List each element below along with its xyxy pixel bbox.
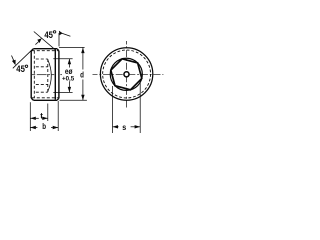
wire: horizontal centerline of front view <box>93 73 164 75</box>
arrowhead b right <box>53 126 59 129</box>
top-right chamfer <box>57 49 59 51</box>
wire: b dimension line right segment <box>51 127 58 129</box>
svg-text:d: d <box>80 71 84 80</box>
svg-text:45: 45 <box>16 64 25 74</box>
wire: s dimension extension line right <box>139 80 141 133</box>
wire: t dimension line right segment <box>43 117 48 119</box>
arrowhead s right <box>135 125 141 128</box>
wire: leader line from head chamfer up to 45 deg label <box>58 33 60 46</box>
wire: thread runout hidden line (vertical, near left face) <box>33 51 35 98</box>
left face edge <box>30 51 32 98</box>
wire: t dimension extension line right <box>47 104 49 122</box>
wire: s dimension line right segment <box>131 126 141 128</box>
socket corner circle <box>110 58 142 90</box>
wire: d dimension extension line bottom <box>60 99 87 101</box>
arrowhead d dimension up <box>81 48 84 54</box>
arrowhead s left <box>113 125 119 128</box>
top-left chamfer <box>31 49 33 51</box>
wire: s dimension line left segment <box>113 126 119 128</box>
svg-text:s: s <box>122 122 126 132</box>
wire: hex socket hidden outline, outer corner bottom <box>36 91 48 93</box>
small center hole circle <box>124 72 129 77</box>
wire: s dimension extension line left <box>112 86 114 133</box>
wire: e dimension line upper segment <box>68 59 70 68</box>
wire: socket bottom cone arc <box>48 60 52 92</box>
arrowhead t left <box>30 117 36 120</box>
wire: d dimension extension line top <box>59 46 85 48</box>
wire: b dimension line left segment <box>30 127 37 129</box>
arrowhead of left 45-degree leader <box>12 60 16 66</box>
wire: b dimension extension line right <box>57 101 59 131</box>
arrowhead e dimension up <box>68 59 71 65</box>
wire: leader tail of head chamfer callout <box>61 33 71 37</box>
wire: leader arrow line for top 45 deg label <box>35 41 39 45</box>
wire: hex socket hidden outline, outer corner top <box>36 58 48 60</box>
head chamfer ring line <box>54 50 56 100</box>
wire: e dimension extension line top <box>53 58 72 60</box>
wire: hex socket hidden inner corner bottom <box>36 83 48 85</box>
wire: socket bottom hidden line <box>47 59 49 92</box>
right face edge <box>58 51 60 99</box>
arrowhead e dimension down <box>68 87 71 93</box>
wire: hex socket hidden inner corner top <box>36 66 48 68</box>
wire: thread root hidden line top <box>32 50 59 52</box>
wire: thread root hidden line bottom <box>32 97 59 99</box>
hex socket hexagon <box>111 59 142 90</box>
svg-text:+0,5: +0,5 <box>62 75 74 82</box>
top edge <box>33 48 57 50</box>
wire: d dimension line upper segment <box>82 48 84 70</box>
wire: d dimension line lower segment <box>82 80 84 101</box>
wire: e dimension line lower segment <box>68 82 70 93</box>
svg-text:45: 45 <box>44 30 53 40</box>
wire: vertical centerline of front view <box>126 41 128 108</box>
wire: leader arrow line for left 45 deg label <box>12 56 14 61</box>
arrowhead of head chamfer leader pointing at 45 deg label <box>59 31 63 36</box>
arrowhead d dimension down <box>81 95 84 101</box>
arrowhead t right <box>42 117 48 120</box>
wire: side-view body outline of screw plug <box>31 49 59 101</box>
thread root dashed circle <box>103 50 151 98</box>
outer circle of front view <box>100 48 152 100</box>
svg-text:t: t <box>40 112 43 121</box>
wire: t dimension extension line left <box>29 102 31 131</box>
bottom edge <box>33 99 57 101</box>
wire: t dimension line left segment <box>30 117 39 119</box>
svg-text:b: b <box>42 121 46 131</box>
wire: extended chamfer line of head face (45 deg) <box>34 32 56 50</box>
arrowhead of top 45-degree leader <box>37 38 42 43</box>
arrowhead b left <box>30 126 36 129</box>
bottom-left chamfer <box>31 98 33 100</box>
wire: horizontal centerline of side view <box>32 74 62 76</box>
bottom-right chamfer <box>57 98 59 100</box>
wire: e dimension extension line bottom <box>53 91 72 93</box>
wire: extended chamfer line of left face (45 deg) <box>13 50 32 68</box>
